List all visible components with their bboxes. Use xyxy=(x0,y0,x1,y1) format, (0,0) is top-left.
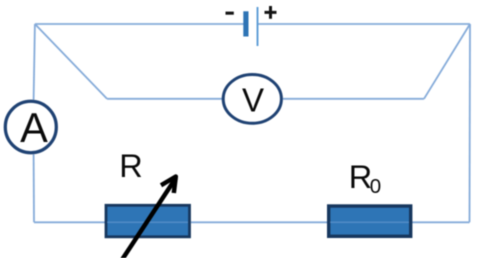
battery negative plate (short thick bar) xyxy=(243,11,248,36)
wire: voltmeter branch left diagonal from top-left corner xyxy=(35,24,107,99)
rheostat R body xyxy=(106,205,190,237)
wire: left vertical (ammeter down to bottom-left corner) xyxy=(33,155,35,223)
resistor R0 body xyxy=(329,206,411,236)
wire: right vertical (top-right corner to bottom-right corner) xyxy=(469,24,472,222)
wire: bottom left horizontal (corner to rheostat R) xyxy=(34,221,106,223)
svg-text:V: V xyxy=(242,82,264,119)
ammeter U-A circle xyxy=(5,101,56,152)
rheostat arrow open head xyxy=(161,177,176,194)
wire: top right horizontal (battery plus plate to top-right corner) xyxy=(258,23,470,25)
wire: voltmeter branch right horizontal from voltmeter xyxy=(283,98,424,100)
wire: faint wire seen across rheostat body xyxy=(107,221,188,223)
rheostat wiper arrow xyxy=(121,178,177,258)
battery positive plate (long thin line) xyxy=(257,7,259,46)
wire: left vertical (top-left corner down to ammeter) xyxy=(34,24,35,100)
wire: bottom right horizontal (resistor R0 to bottom-right corner) xyxy=(412,221,470,223)
voltmeter U-V circle xyxy=(223,75,281,124)
svg-text:A: A xyxy=(20,104,48,151)
wire: top left horizontal (corner to battery minus plate) xyxy=(35,23,244,25)
svg-text:R: R xyxy=(119,148,142,184)
wire: bottom middle horizontal (rheostat R to resistor R0) xyxy=(191,221,327,223)
label - (battery negative) xyxy=(226,12,234,15)
wire: voltmeter branch right diagonal to top-right corner xyxy=(424,24,470,99)
svg-text:R: R xyxy=(349,159,372,195)
wire: voltmeter branch left horizontal to voltmeter xyxy=(107,98,222,100)
label + (battery positive) xyxy=(265,6,277,19)
svg-text:0: 0 xyxy=(370,175,381,198)
wire: faint wire seen across resistor R0 body xyxy=(330,221,409,223)
